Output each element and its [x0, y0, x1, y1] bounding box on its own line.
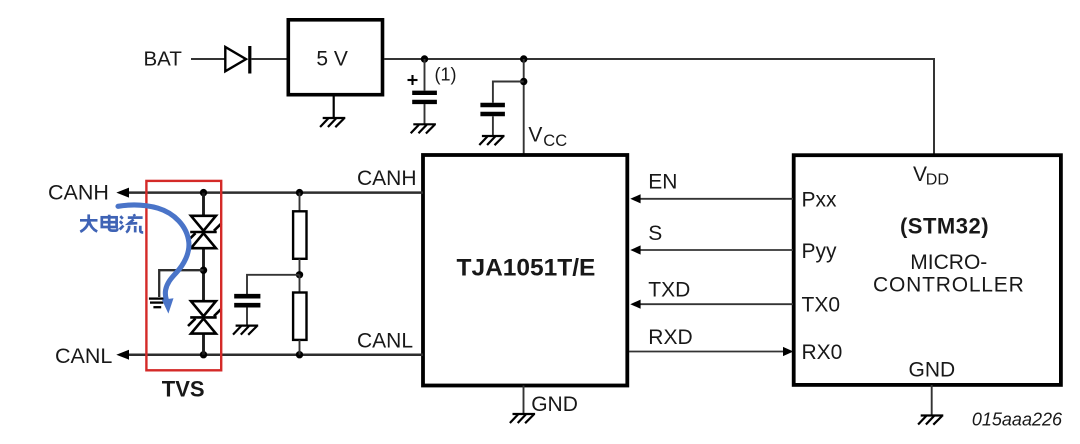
- svg-text:CANH: CANH: [357, 167, 417, 190]
- glyph 流: [120, 216, 123, 219]
- svg-text:EN: EN: [648, 171, 677, 194]
- voltage regulator 5V box: [288, 20, 382, 95]
- ground (below C1): [411, 124, 436, 133]
- svg-text:TVS: TVS: [162, 377, 205, 402]
- svg-text:Pxx: Pxx: [802, 189, 838, 212]
- ground (below C2): [479, 136, 504, 145]
- svg-text:V: V: [528, 124, 542, 147]
- ground (below U1): [510, 414, 535, 423]
- wire TVS column: [202, 193, 205, 355]
- ground (below C3): [233, 326, 258, 335]
- label plus sign of C1: [408, 75, 418, 85]
- diode D1: [225, 46, 250, 74]
- wire BAT to diode D1: [191, 58, 225, 60]
- glyph 电: [108, 215, 111, 230]
- node junction R1/R2/C3: [296, 271, 303, 278]
- annotation blue current arrow: [118, 205, 189, 314]
- wire VCC drop to transceiver: [523, 59, 525, 156]
- resistor R1: [293, 193, 306, 275]
- svg-text:GND: GND: [531, 393, 578, 416]
- node junction CANL/R2: [296, 351, 303, 358]
- microcontroller U2 box: [794, 155, 1061, 385]
- wire CANL with left arrow: [116, 350, 423, 360]
- node junction rail/VCC: [520, 55, 527, 62]
- wire GND stub of U1: [523, 386, 525, 415]
- svg-text:CANH: CANH: [48, 181, 109, 205]
- annotation red box around TVS: [146, 181, 221, 370]
- svg-text:TXD: TXD: [648, 279, 690, 302]
- svg-text:Pyy: Pyy: [802, 240, 838, 263]
- svg-text:CANL: CANL: [55, 344, 112, 368]
- svg-text:CANL: CANL: [357, 330, 413, 353]
- svg-text:CC: CC: [543, 132, 567, 150]
- wire 5V output rail to MCU corner: [384, 59, 934, 156]
- wire diode to 5V regulator: [251, 58, 287, 60]
- svg-text:(STM32): (STM32): [900, 214, 989, 239]
- wire S with left arrow: [630, 245, 793, 254]
- transceiver U1 box TJA1051T/E: [423, 155, 627, 386]
- TVS diode Z1 (bidirectional): [188, 216, 221, 248]
- svg-text:(1): (1): [435, 65, 457, 85]
- wire TVS midpoint to ground: [159, 270, 203, 297]
- svg-text:RX0: RX0: [802, 341, 843, 364]
- capacitor C2: [480, 105, 505, 136]
- svg-text:BAT: BAT: [144, 48, 183, 71]
- ground (below U2): [918, 416, 943, 425]
- svg-text:TJA1051T/E: TJA1051T/E: [457, 255, 596, 282]
- node junction CANH/TVS: [200, 189, 207, 196]
- glyph 大: [80, 219, 98, 222]
- node junction rail/C1: [421, 55, 428, 62]
- TVS diode Z2 (bidirectional): [188, 301, 221, 333]
- svg-text:MICRO-: MICRO-: [910, 251, 987, 274]
- capacitor C1 electrolytic: [412, 59, 437, 124]
- node junction VCC/C2: [520, 78, 527, 85]
- wire RXD with right arrow: [629, 347, 793, 356]
- node junction CANL/TVS: [200, 351, 207, 358]
- ground (TVS midpoint, 3-bar earth): [149, 299, 164, 308]
- svg-text:CONTROLLER: CONTROLLER: [873, 274, 1025, 297]
- svg-text:GND: GND: [909, 359, 956, 382]
- annotation label 大电流 (hand-drawn glyphs): [80, 214, 143, 232]
- node junction CANH/R1: [296, 189, 303, 196]
- svg-text:015aaa226: 015aaa226: [972, 410, 1063, 430]
- svg-text:RXD: RXD: [648, 326, 692, 349]
- capacitor C3 (split termination): [234, 275, 299, 326]
- wire EN with left arrow: [630, 194, 793, 203]
- svg-text:5 V: 5 V: [316, 48, 348, 71]
- wire TXD with left arrow: [630, 300, 793, 309]
- resistor R2: [293, 275, 306, 355]
- wire CANH with left arrow: [116, 188, 423, 198]
- wire C2 tap: [493, 82, 524, 103]
- wire GND stub of U2: [931, 385, 933, 416]
- svg-text:S: S: [648, 222, 662, 245]
- svg-text:TX0: TX0: [802, 294, 841, 317]
- svg-text:DD: DD: [926, 171, 949, 188]
- node junction TVS midpoint: [200, 267, 207, 274]
- ground (below 5V regulator): [320, 96, 345, 127]
